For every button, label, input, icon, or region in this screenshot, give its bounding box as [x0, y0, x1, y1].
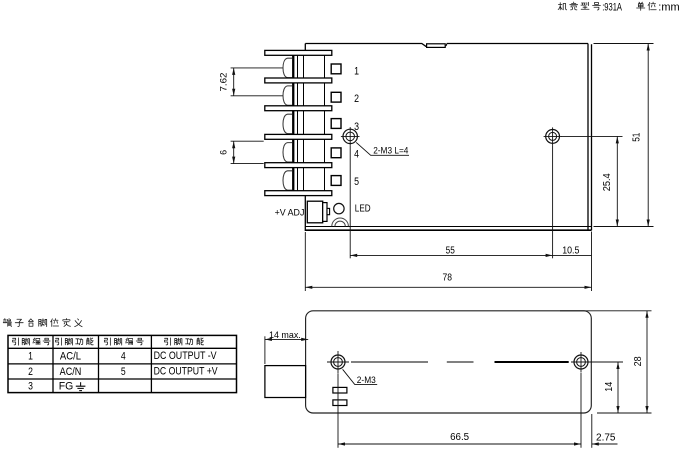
terminal block body (covers case edge) — [292, 55, 325, 192]
pin numbers 1-5 — [354, 66, 359, 188]
svg-text:55: 55 — [446, 246, 456, 257]
svg-text:LED: LED — [355, 204, 371, 215]
svg-text:1: 1 — [28, 350, 33, 362]
top view: case left edge — [304, 44, 306, 232]
svg-text:14 max.: 14 max. — [269, 329, 301, 340]
svg-text:2.75: 2.75 — [596, 432, 616, 443]
dimension 78 (overall width) — [305, 232, 591, 291]
top view: case bottom edge (double line with lip) — [305, 227, 591, 231]
pin squares 1-5 — [331, 64, 341, 185]
dimension 2.75 (hole to right edge, bottom) — [592, 414, 618, 448]
mounting hole (bottom view, right) — [571, 352, 591, 372]
svg-text:51: 51 — [631, 133, 642, 142]
table title: 端子台脚位定义 — [3, 318, 82, 326]
table data rows — [28, 350, 218, 393]
dimension 66.5 (hole to hole, bottom) — [338, 373, 581, 448]
dimension 28 (overall height, bottom view) — [560, 311, 652, 413]
svg-text:5: 5 — [121, 366, 126, 378]
svg-text:DC OUTPUT +V: DC OUTPUT +V — [154, 366, 218, 378]
mounting hole 2-M3 (top view, left) — [341, 127, 360, 146]
svg-text:AC/N: AC/N — [60, 366, 82, 378]
bottom view: dashed center line — [351, 361, 474, 363]
dimension 7.62 (terminal pitch) — [219, 68, 283, 96]
svg-text:4: 4 — [354, 149, 359, 161]
terminal screws (5x, D-shaped heads) — [283, 58, 292, 190]
svg-text:1: 1 — [354, 66, 359, 78]
svg-text:4: 4 — [121, 350, 126, 362]
top view: case right edge (double line) — [588, 44, 592, 231]
leader and label 2-M3 (bottom view) — [343, 369, 378, 386]
dimension 25.4 (hole to bottom edge) — [561, 136, 623, 226]
terminal table grid — [8, 335, 237, 392]
table header: 引脚编号 引脚功能 引脚编号 引脚功能 — [13, 338, 204, 345]
svg-text:2: 2 — [354, 93, 359, 105]
svg-text:DC OUTPUT -V: DC OUTPUT -V — [154, 350, 217, 362]
ground symbol (FG) — [76, 382, 86, 390]
LED indicator circle — [334, 203, 344, 213]
bottom view: terminal block protrusion — [265, 366, 306, 398]
svg-text:28: 28 — [633, 356, 644, 366]
mounting hole 2-M3 (bottom view, left) — [327, 351, 349, 373]
svg-text::mm: :mm — [658, 1, 679, 13]
svg-text:25.4: 25.4 — [602, 173, 613, 192]
svg-text:66.5: 66.5 — [450, 432, 470, 443]
svg-text:2-M3: 2-M3 — [357, 375, 376, 386]
svg-text:3: 3 — [28, 381, 33, 393]
cable bushing half-circles at bottom edge — [332, 218, 349, 226]
svg-text:AC/L: AC/L — [60, 350, 81, 362]
dimension 14 (hole to bottom edge, bottom view) — [590, 362, 623, 413]
svg-text:10.5: 10.5 — [562, 246, 580, 257]
svg-text:7.62: 7.62 — [219, 73, 230, 92]
bottom view: rounded case outline — [306, 311, 592, 413]
svg-text::931A: :931A — [602, 1, 622, 13]
dimension 10.5 (hole to edge) — [553, 232, 592, 292]
dimension 14 max. (terminal protrusion) — [265, 329, 308, 364]
svg-text:2: 2 — [28, 366, 33, 378]
dimension 6 (slot width) — [219, 141, 264, 163]
dimension 51 (overall depth) — [594, 44, 654, 227]
svg-text:5: 5 — [354, 176, 359, 188]
svg-text:2-M3 L=4: 2-M3 L=4 — [373, 146, 409, 157]
potentiometer +V ADJ — [307, 201, 329, 223]
dimension 55 (hole to hole) — [350, 145, 552, 258]
svg-text:FG: FG — [59, 381, 74, 393]
svg-text:78: 78 — [443, 273, 453, 284]
mounting clips (2 small rectangles) — [333, 387, 347, 405]
terminal separator bars (6x) — [265, 50, 332, 195]
svg-text:+V ADJ: +V ADJ — [275, 207, 305, 218]
svg-text:6: 6 — [219, 150, 230, 155]
top view: case top edge with latch notch — [305, 44, 588, 48]
mounting hole (top view, right) — [544, 127, 562, 145]
header text: 机壳型号:931A 单位:mm — [558, 1, 679, 13]
svg-text:14: 14 — [604, 381, 615, 391]
leader and label 2-M3 L=4 — [356, 142, 409, 156]
